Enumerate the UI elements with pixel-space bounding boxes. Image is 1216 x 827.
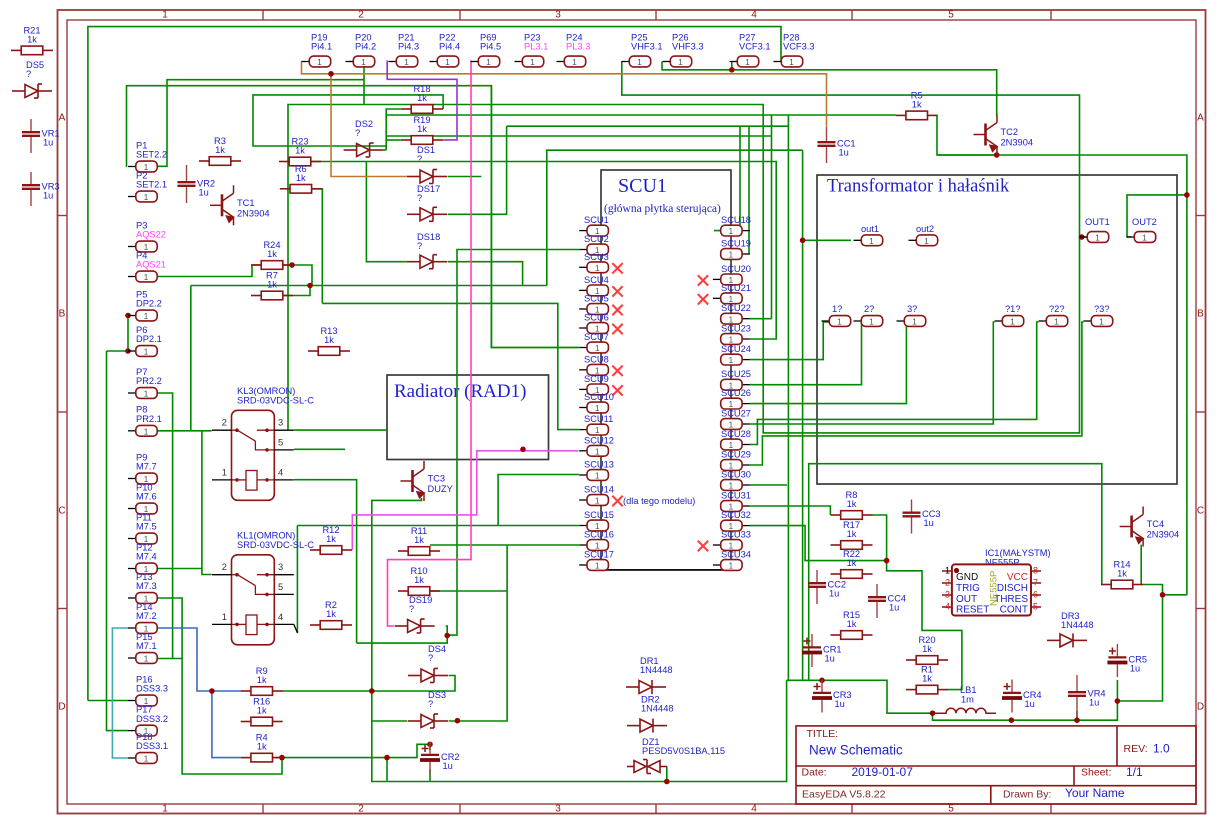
wire: rail y126 down the CR vertical	[507, 125, 789, 127]
connector pin P3	[128, 246, 136, 248]
wire: rail y115 to R5	[386, 114, 896, 116]
svg-text:1: 1	[445, 57, 450, 67]
resistor R7	[251, 291, 293, 300]
svg-text:1k: 1k	[257, 706, 267, 716]
connector pin P23	[515, 61, 523, 63]
resistor R21	[11, 46, 53, 55]
svg-text:M7.6: M7.6	[136, 492, 157, 502]
connector pin SCU27	[742, 423, 750, 425]
connector pin ?1?	[995, 320, 1003, 322]
svg-text:1?: 1?	[832, 304, 842, 314]
svg-text:SCU15: SCU15	[584, 510, 614, 520]
wire: TC2 emitter rail	[937, 154, 997, 156]
diode DS18	[407, 255, 447, 269]
resistor R5	[896, 111, 938, 120]
svg-text:1: 1	[144, 426, 149, 436]
svg-text:GND: GND	[956, 572, 978, 583]
svg-text:?: ?	[417, 193, 422, 203]
junction node at 822,680.3	[819, 678, 825, 684]
svg-text:1k: 1k	[847, 529, 857, 539]
connector pin P10	[128, 508, 136, 510]
svg-text:?: ?	[417, 154, 422, 164]
connector pin SCU33	[713, 544, 721, 546]
svg-text:1: 1	[530, 57, 535, 67]
junction node at 932.5,713.2	[930, 710, 936, 716]
svg-text:LB1: LB1	[960, 685, 977, 695]
wire: DS3 left lead to vertical	[372, 720, 408, 722]
svg-text:1: 1	[222, 467, 227, 477]
connector pin ?3?	[1084, 320, 1092, 322]
svg-text:SCU14: SCU14	[584, 485, 614, 495]
svg-text:1: 1	[1010, 317, 1015, 327]
resistor R13	[308, 347, 350, 356]
polarized capacitor CR5	[1116, 644, 1118, 677]
svg-text:4: 4	[751, 804, 757, 815]
capacitor CC2	[816, 570, 818, 604]
wire: CR2 bottom drop	[429, 769, 431, 782]
svg-text:?: ?	[26, 69, 31, 79]
svg-text:1: 1	[745, 57, 750, 67]
svg-text:3?: 3?	[907, 304, 917, 314]
svg-text:1u: 1u	[829, 589, 839, 599]
connector pin 3?	[897, 320, 905, 322]
svg-text:1: 1	[144, 192, 149, 202]
wire: R19 left	[386, 139, 401, 141]
svg-text:1: 1	[144, 272, 149, 282]
svg-text:1: 1	[1142, 233, 1147, 243]
Transformator block box	[817, 175, 1177, 484]
svg-text:1: 1	[729, 250, 734, 260]
svg-text:1: 1	[222, 612, 227, 622]
svg-text:KL1(OMRON): KL1(OMRON)	[237, 530, 295, 540]
connector pin 1?	[822, 320, 830, 322]
svg-text:1u: 1u	[825, 654, 835, 664]
svg-text:1: 1	[678, 57, 683, 67]
wire: SCU22 vertical	[771, 115, 773, 319]
svg-text:1u: 1u	[443, 761, 453, 771]
svg-text:1: 1	[361, 57, 366, 67]
wire: blue P14 to R9/R4	[158, 628, 241, 691]
connector pin SCU31	[742, 505, 750, 507]
junction node at 1077,720.2	[1074, 717, 1080, 723]
svg-text:Pi4.3: Pi4.3	[398, 42, 419, 52]
svg-text:1: 1	[144, 654, 149, 664]
svg-text:1k: 1k	[417, 124, 427, 134]
svg-text:?1?: ?1?	[1005, 304, 1021, 314]
junction node at 886.6,560.6	[884, 558, 890, 564]
resistor R4	[241, 753, 283, 762]
svg-text:out2: out2	[916, 224, 934, 234]
svg-text:1: 1	[595, 263, 600, 273]
resistor R18	[401, 105, 443, 114]
junction node at 447.2,635.5	[444, 633, 450, 639]
svg-text:2: 2	[358, 804, 364, 815]
wire: R14 feed rail	[809, 464, 1102, 681]
SCU1 block box	[601, 170, 731, 570]
svg-text:PESD5V0S1BA,115: PESD5V0S1BA,115	[642, 746, 725, 756]
svg-text:3: 3	[278, 562, 283, 572]
svg-text:RESET: RESET	[956, 605, 989, 616]
wire: OUT1 node down to row-433 loop	[288, 105, 1080, 433]
svg-text:Sheet:: Sheet:	[1081, 767, 1111, 779]
connector pin P25	[622, 61, 630, 63]
svg-text:3: 3	[945, 590, 950, 600]
diode DS3	[408, 714, 448, 728]
diode DS2	[344, 143, 384, 157]
wire: DS17 right riser to rail y126	[448, 126, 507, 214]
svg-text:Drawn By:: Drawn By:	[1003, 789, 1051, 801]
connector pin SCU5	[579, 308, 587, 310]
svg-text:(główna płytka sterująca): (główna płytka sterująca)	[604, 203, 721, 215]
svg-text:1k: 1k	[414, 575, 424, 585]
svg-text:VHF3.1: VHF3.1	[631, 42, 663, 52]
svg-text:DSS3.1: DSS3.1	[136, 741, 168, 751]
svg-text:2: 2	[945, 578, 950, 588]
connector pin P27	[730, 61, 738, 63]
svg-text:1: 1	[729, 561, 734, 571]
svg-text:C: C	[1197, 506, 1204, 517]
resistor R12	[310, 546, 352, 555]
svg-text:7: 7	[1033, 578, 1038, 588]
svg-text:SCU13: SCU13	[584, 460, 614, 470]
svg-text:SCU20: SCU20	[721, 264, 751, 274]
svg-text:1: 1	[572, 57, 577, 67]
svg-text:CONT: CONT	[1000, 605, 1028, 616]
svg-text:TC4: TC4	[1147, 519, 1165, 529]
junction node at 430,744.3	[427, 742, 433, 748]
svg-text:SCU25: SCU25	[721, 369, 751, 379]
svg-text:1: 1	[912, 317, 917, 327]
wire: node row 285	[191, 285, 547, 287]
resistor R3	[199, 157, 241, 166]
junction node at 211.9,691	[209, 688, 215, 694]
wire: SCU31 row to R8	[750, 506, 830, 515]
svg-text:SCU26: SCU26	[721, 388, 751, 398]
connector pin SCU1	[579, 230, 587, 232]
connector pin SCU12	[579, 450, 587, 452]
svg-text:1k: 1k	[215, 145, 225, 155]
junction node at 371.8,691	[369, 688, 375, 694]
svg-text:?3?: ?3?	[1094, 304, 1110, 314]
svg-text:1: 1	[595, 403, 600, 413]
connector pin P21	[389, 61, 397, 63]
inductor LB1	[936, 708, 996, 713]
diode DS4	[408, 669, 448, 683]
wire: SCU16 long row	[430, 544, 579, 546]
svg-text:M7.5: M7.5	[136, 522, 157, 532]
svg-text:SCU10: SCU10	[584, 392, 614, 402]
junction node at 1162.5,594.8	[1160, 592, 1166, 598]
wire: DS1 right stub	[448, 176, 482, 178]
svg-text:1: 1	[595, 446, 600, 456]
wire: DS2 right	[384, 149, 387, 151]
svg-text:1: 1	[837, 317, 842, 327]
svg-text:AQS22: AQS22	[136, 230, 166, 240]
wire: SCU2 net to DS19	[447, 250, 579, 636]
wire: SCU11 feed from row 305	[322, 303, 579, 429]
svg-text:REV:: REV:	[1124, 743, 1148, 755]
svg-text:8: 8	[1033, 566, 1038, 576]
svg-text:4: 4	[278, 612, 283, 622]
connector pin P17	[128, 730, 136, 732]
wire: LB1 junction to CR4 rail	[933, 595, 1163, 720]
connector pin SCU20	[713, 278, 721, 280]
wire: SCU24 row to pin 1?	[750, 322, 829, 360]
wire: KL3 pin4 down	[294, 480, 357, 643]
svg-text:OUT1: OUT1	[1085, 217, 1110, 227]
svg-text:SRD-03VDC-SL-C: SRD-03VDC-SL-C	[237, 395, 314, 405]
svg-text:1k: 1k	[257, 742, 267, 752]
svg-text:1N4448: 1N4448	[1061, 620, 1094, 630]
svg-text:New Schematic: New Schematic	[809, 743, 903, 758]
resistor R10	[398, 587, 440, 596]
resistor R20	[906, 656, 948, 665]
connector pin P6	[128, 350, 136, 352]
svg-text:1: 1	[729, 481, 734, 491]
wire: P8 to KL3 pin2 and KL1 pin2	[158, 430, 212, 432]
svg-text:4: 4	[945, 602, 950, 612]
connector pin SCU13	[579, 474, 587, 476]
svg-text:Date:: Date:	[802, 767, 827, 779]
svg-text:5: 5	[1033, 602, 1038, 612]
junction node at 802.6,240.3	[800, 238, 806, 244]
wire: purple P21 to R19	[387, 60, 457, 139]
polarized capacitor CR4	[1011, 680, 1013, 713]
connector pin SCU34	[713, 564, 721, 566]
transistor TC4	[1120, 507, 1144, 547]
wire: R14 right lead to right rail	[1143, 585, 1187, 595]
connector pin P15	[128, 657, 136, 659]
svg-text:1: 1	[404, 57, 409, 67]
svg-text:1: 1	[1054, 317, 1059, 327]
junction node at 387,757.6	[384, 755, 390, 761]
connector pin SCU26	[742, 403, 750, 405]
wire: P6 vertical to P17	[107, 350, 129, 352]
svg-text:Transformator i hałaśnik: Transformator i hałaśnik	[827, 177, 1010, 197]
wire: KL3 pin3 to Radiator box	[294, 429, 387, 431]
svg-text:1: 1	[1099, 317, 1104, 327]
resistor R6	[280, 185, 322, 194]
capacitor CC3	[911, 500, 913, 534]
svg-text:6: 6	[1033, 590, 1038, 600]
capacitor VR1	[30, 119, 32, 153]
svg-text:1: 1	[595, 561, 600, 571]
connector pin SCU2	[579, 249, 587, 251]
wire: KL3 pin5 stub	[294, 448, 345, 450]
junction node at 1081.7,237	[1079, 234, 1085, 240]
svg-text:D: D	[58, 702, 65, 713]
connector pin P19	[302, 61, 310, 63]
svg-text:SCU28: SCU28	[721, 429, 751, 439]
connector pin P24	[557, 61, 565, 63]
resistor R23	[279, 157, 321, 166]
connector pin out2	[909, 239, 917, 241]
svg-text:SCU33: SCU33	[721, 530, 751, 540]
svg-text:SCU29: SCU29	[721, 450, 751, 460]
svg-text:5: 5	[948, 10, 954, 21]
svg-text:A: A	[1197, 113, 1204, 124]
capacitor CC4	[876, 584, 878, 618]
svg-text:NE555P: NE555P	[989, 571, 1000, 606]
svg-text:1k: 1k	[27, 34, 37, 44]
wire: P28 net from left rail	[88, 27, 781, 701]
svg-text:SCU32: SCU32	[721, 510, 751, 520]
wire: TC4 emitter to R14 right	[1140, 545, 1142, 585]
svg-text:1u: 1u	[839, 148, 849, 158]
junction node at 1011.4,720.2	[1009, 717, 1015, 723]
svg-text:SCU2: SCU2	[584, 234, 609, 244]
connector pin SCU18	[742, 230, 750, 232]
svg-text:PR2.1: PR2.1	[136, 414, 162, 424]
svg-text:1: 1	[595, 471, 600, 481]
connector pin P1	[128, 166, 136, 168]
svg-text:DISCH: DISCH	[997, 583, 1028, 594]
svg-text:1: 1	[869, 236, 874, 246]
svg-text:PL3.1: PL3.1	[524, 42, 548, 52]
svg-text:C: C	[58, 506, 65, 517]
wire: SCU26 row to pin 3?	[750, 322, 906, 404]
connector pin SCU6	[579, 327, 587, 329]
connector pin SCU10	[579, 407, 587, 409]
TVS diode DZ1	[627, 760, 667, 774]
svg-text:1k: 1k	[847, 499, 857, 509]
wire: SCU19 riser	[748, 126, 750, 254]
svg-text:1: 1	[595, 425, 600, 435]
wire: CR2 top	[429, 744, 431, 750]
svg-text:out1: out1	[861, 224, 879, 234]
diode DR2	[627, 719, 667, 733]
svg-text:1k: 1k	[922, 644, 932, 654]
svg-text:Pi4.4: Pi4.4	[439, 42, 460, 52]
capacitor CC1	[826, 127, 828, 163]
wire: P13 to R4 right	[158, 598, 283, 774]
wire: P26 to TC2 collector	[662, 62, 997, 116]
no-connect X mark at SCU21	[698, 294, 708, 304]
polarized capacitor CR1	[811, 634, 813, 667]
svg-text:1: 1	[637, 57, 642, 67]
svg-text:1u: 1u	[1089, 698, 1099, 708]
svg-text:1k: 1k	[912, 99, 922, 109]
svg-text:1: 1	[595, 343, 600, 353]
connector pin P16	[128, 700, 136, 702]
svg-text:1: 1	[869, 317, 874, 327]
connector pin P5	[128, 315, 136, 317]
svg-text:1k: 1k	[326, 534, 336, 544]
wire: R9 row to DS4	[372, 676, 455, 692]
svg-text:B: B	[59, 309, 66, 320]
KL1 pin4 hook	[294, 624, 298, 632]
junction node at 666.8,781.5	[664, 779, 670, 785]
connector pin 2?	[854, 320, 862, 322]
no-connect X mark at SCU3	[612, 263, 622, 273]
connector pin P20	[346, 61, 354, 63]
svg-text:SCU3: SCU3	[584, 252, 609, 262]
svg-text:B: B	[1197, 309, 1204, 320]
wire: OUT2 to right rail	[1127, 195, 1187, 237]
svg-text:TRIG: TRIG	[956, 583, 980, 594]
wire: SCU22 row	[750, 318, 772, 320]
connector pin SCU19	[742, 253, 750, 255]
svg-text:5: 5	[278, 437, 283, 447]
connector pin ?2?	[1039, 320, 1047, 322]
svg-text:1: 1	[162, 804, 168, 815]
no-connect X mark at SCU20	[698, 275, 708, 285]
svg-text:1: 1	[162, 10, 168, 21]
wire: DZ1 drop to bottom rail	[666, 767, 668, 782]
svg-text:SET2.1: SET2.1	[136, 180, 167, 190]
wire: R7 right node	[283, 286, 310, 296]
svg-text:1k: 1k	[847, 619, 857, 629]
wire: R10 right to DS3 riser	[430, 590, 507, 592]
svg-text:SCU5: SCU5	[584, 294, 609, 304]
connector pin SCU3	[579, 266, 587, 268]
wire: R23 rail to SCU23	[311, 162, 776, 340]
svg-text:SCU34: SCU34	[721, 550, 751, 560]
connector pin P26	[663, 61, 671, 63]
wire: rail y136	[386, 135, 771, 137]
svg-text:SCU31: SCU31	[721, 491, 751, 501]
connector pin SCU21	[713, 297, 721, 299]
transistor TC1	[210, 185, 234, 225]
svg-text:M7.1: M7.1	[136, 641, 157, 651]
wire: P27 drop	[731, 62, 733, 70]
wire: R4 row to bottom rail	[386, 758, 388, 782]
svg-text:3: 3	[555, 804, 561, 815]
svg-text:SCU17: SCU17	[584, 550, 614, 560]
svg-text:2: 2	[222, 418, 227, 428]
connector pin P13	[128, 597, 136, 599]
svg-text:A: A	[59, 113, 66, 124]
svg-text:1N4448: 1N4448	[641, 704, 674, 714]
svg-text:M7.7: M7.7	[136, 462, 157, 472]
svg-text:1.0: 1.0	[1153, 742, 1170, 756]
no-connect X mark at SCU9	[612, 385, 622, 395]
svg-text:1m: 1m	[961, 695, 974, 705]
svg-text:VCC: VCC	[1007, 572, 1028, 583]
connector pin SCU30	[742, 484, 750, 486]
svg-text:1: 1	[595, 496, 600, 506]
wire: orange P19 rail	[302, 62, 827, 127]
svg-text:Pi4.5: Pi4.5	[480, 42, 501, 52]
svg-text:1: 1	[144, 347, 149, 357]
svg-text:1u: 1u	[924, 518, 934, 528]
svg-text:M7.2: M7.2	[136, 611, 157, 621]
svg-text:Pi4.2: Pi4.2	[355, 42, 376, 52]
svg-text:?: ?	[409, 604, 414, 614]
connector pin P69	[471, 61, 479, 63]
svg-text:1k: 1k	[922, 674, 932, 684]
svg-text:1k: 1k	[326, 609, 336, 619]
connector pin SCU25	[742, 384, 750, 386]
connector pin P22	[430, 61, 438, 63]
connector pin SCU29	[742, 464, 750, 466]
title block	[796, 726, 1196, 804]
svg-text:SCU1: SCU1	[618, 175, 667, 197]
connector pin P18	[128, 757, 136, 759]
junction node at 282,757.6	[279, 755, 285, 761]
wire: KL1 pin4 riser to SCU15 row	[296, 526, 298, 634]
svg-text:1k: 1k	[267, 249, 277, 259]
junction node at 1186.9,194.9	[1184, 192, 1190, 198]
svg-text:M7.3: M7.3	[136, 581, 157, 591]
wire: SCU7 net riser	[491, 86, 579, 348]
wire: CR bundle vertical	[787, 115, 789, 680]
svg-text:1: 1	[144, 311, 149, 321]
connector pin P9	[128, 478, 136, 480]
svg-text:SCU6: SCU6	[584, 313, 609, 323]
junction node at 523,449.3	[520, 447, 526, 453]
no-connect X mark at SCU14	[612, 496, 622, 506]
